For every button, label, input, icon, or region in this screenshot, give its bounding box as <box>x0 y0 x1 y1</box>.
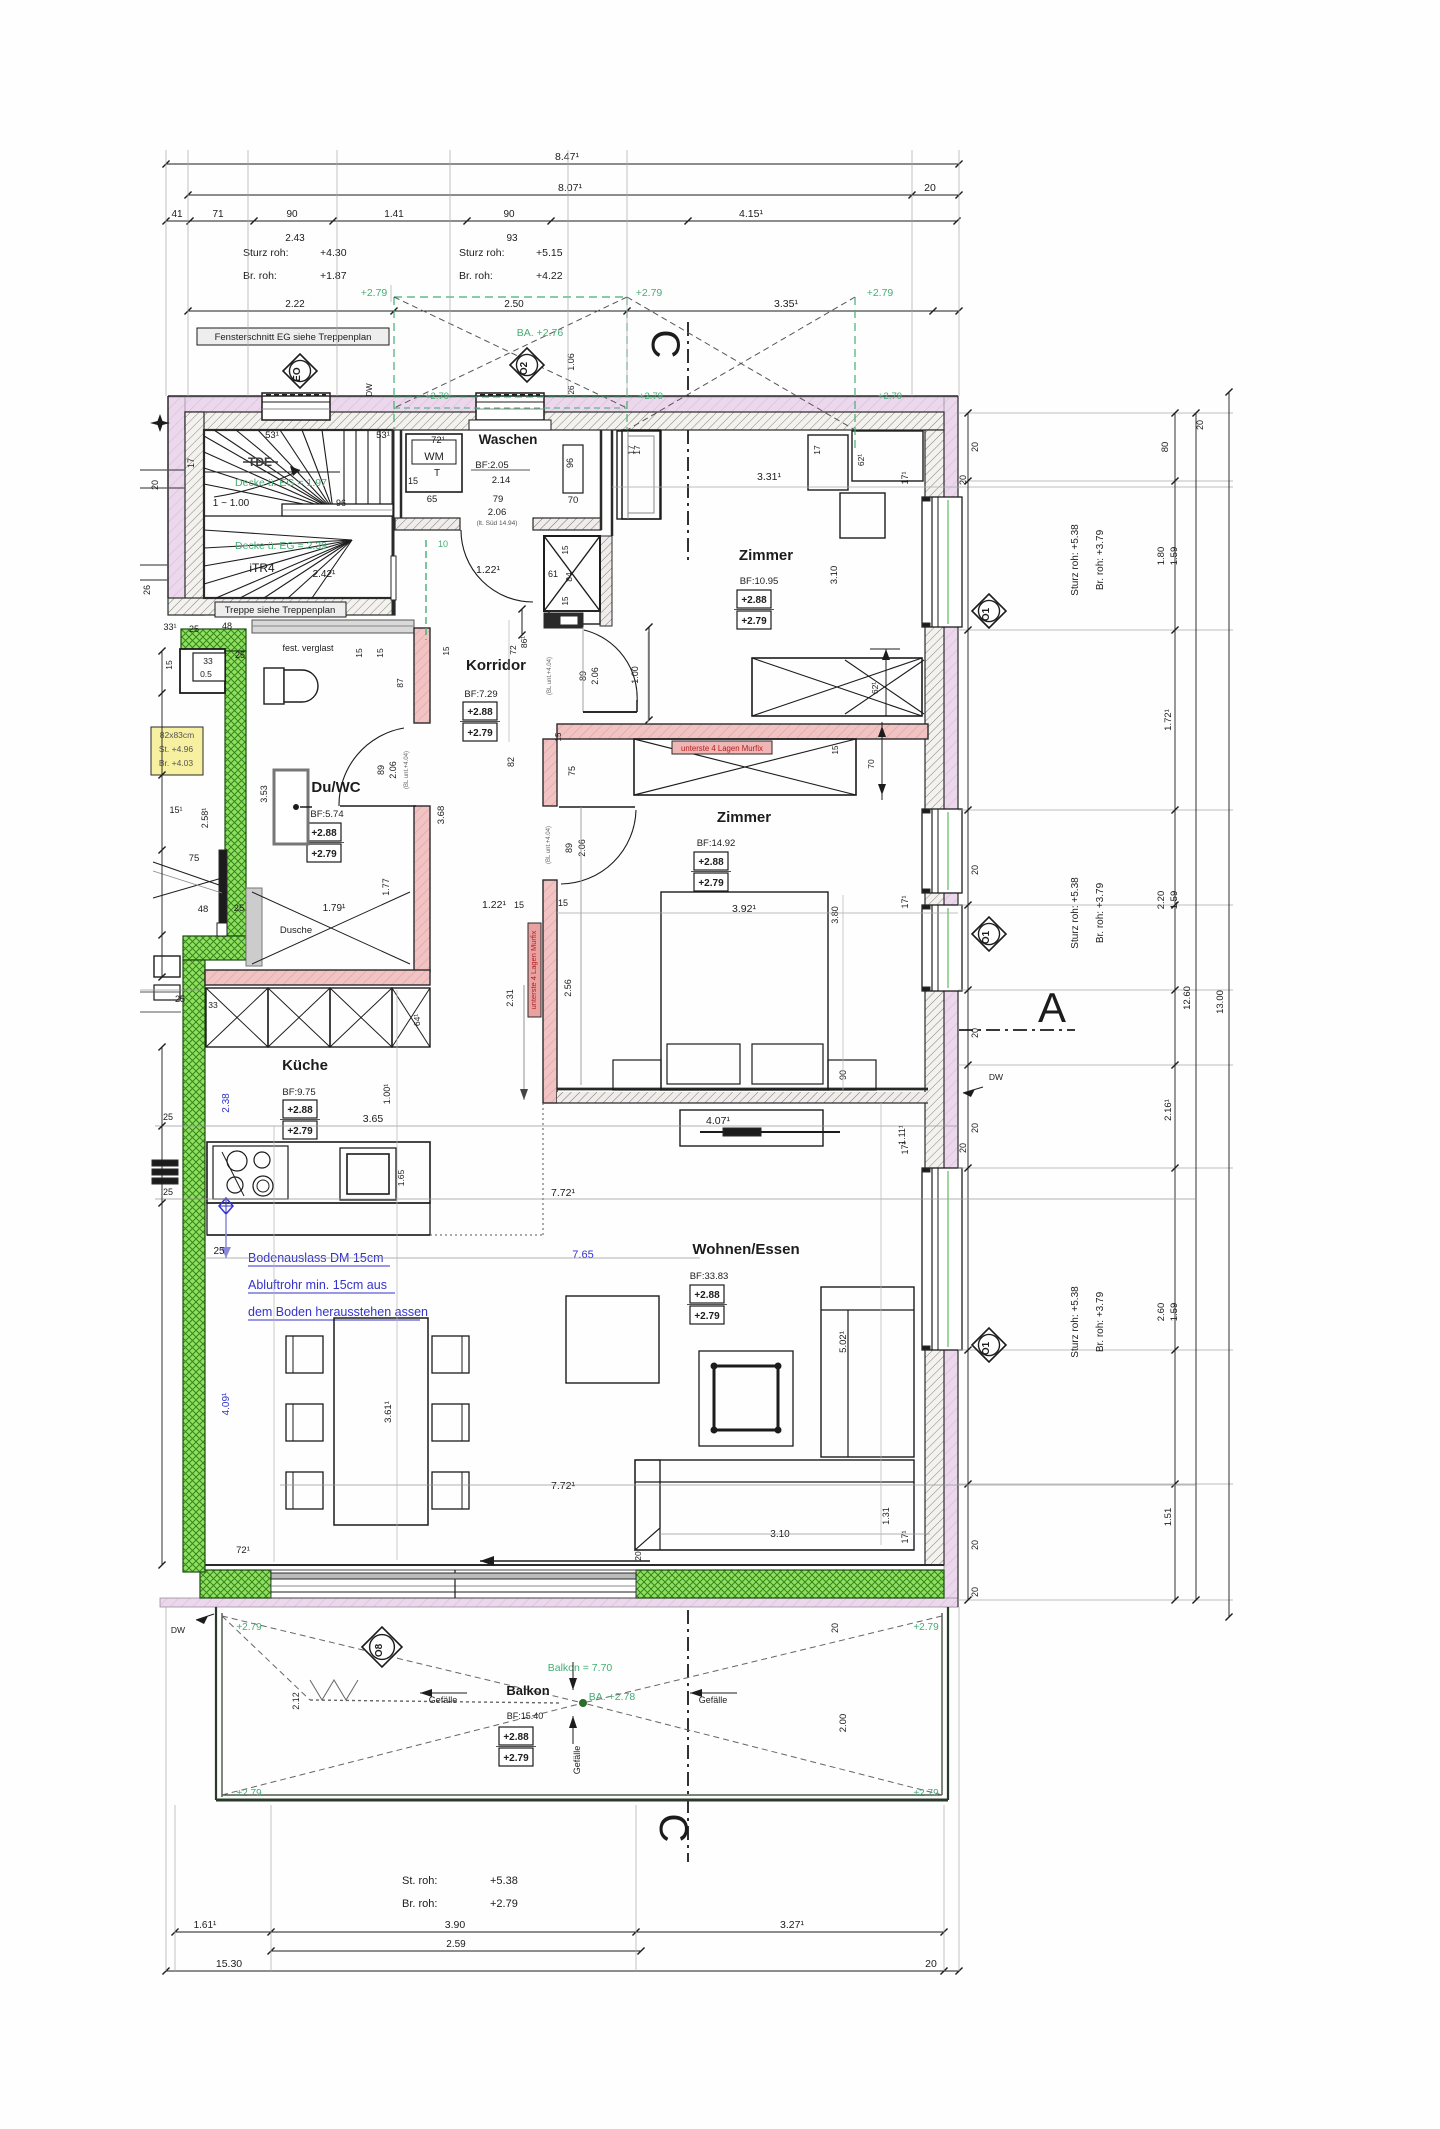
svg-text:T: T <box>434 468 440 479</box>
svg-text:93: 93 <box>506 233 518 244</box>
stair walk line <box>214 470 300 497</box>
svg-text:+2.79: +2.79 <box>361 287 388 299</box>
green dashed construction X <box>394 296 627 298</box>
svg-text:2.50: 2.50 <box>504 299 524 310</box>
waschen room labels <box>406 434 462 492</box>
svg-text:Zimmer: Zimmer <box>739 547 793 564</box>
svg-text:87: 87 <box>395 678 405 688</box>
right wall window 1 <box>922 497 962 627</box>
svg-text:15.30: 15.30 <box>216 1958 242 1970</box>
svg-text:BF:2.05: BF:2.05 <box>475 460 508 471</box>
svg-text:72¹: 72¹ <box>236 1545 250 1556</box>
red vertical note on P4 <box>528 923 541 1017</box>
svg-text:C: C <box>651 1814 695 1843</box>
svg-text:20: 20 <box>925 1958 937 1970</box>
svg-text:Br. roh: +3.79: Br. roh: +3.79 <box>1095 1291 1106 1352</box>
svg-text:+2.88: +2.88 <box>467 707 493 718</box>
kitchen upper cabinets crossed <box>206 988 268 1047</box>
svg-text:Balkon: Balkon <box>506 1683 549 1698</box>
svg-text:0.5: 0.5 <box>200 669 212 679</box>
pink wall P6 horizontal below Du/WC <box>205 970 430 985</box>
svg-text:+2.79: +2.79 <box>913 1622 939 1633</box>
svg-text:BF:14.92: BF:14.92 <box>697 838 736 849</box>
svg-text:3.68: 3.68 <box>436 806 447 825</box>
sideboard zimmer2 south <box>680 1110 823 1146</box>
entrance arrow <box>480 1560 650 1562</box>
svg-text:90: 90 <box>503 209 515 220</box>
svg-text:St. +4.96: St. +4.96 <box>159 744 194 754</box>
svg-text:7.72¹: 7.72¹ <box>551 1480 575 1492</box>
svg-text:A: A <box>1038 984 1066 1031</box>
svg-text:Br. roh: +3.79: Br. roh: +3.79 <box>1095 529 1106 590</box>
stair mid landing line <box>204 471 340 473</box>
svg-text:Sturz roh: +5.38: Sturz roh: +5.38 <box>1070 877 1081 949</box>
svg-text:70: 70 <box>866 759 876 769</box>
svg-text:71: 71 <box>212 209 224 220</box>
svg-text:(BL unt.+4.04): (BL unt.+4.04) <box>547 657 553 695</box>
svg-text:20: 20 <box>1195 420 1205 430</box>
svg-text:+5.38: +5.38 <box>490 1875 518 1887</box>
svg-text:17: 17 <box>812 445 822 455</box>
left niche box <box>180 649 225 693</box>
svg-text:3.65: 3.65 <box>363 1113 384 1125</box>
svg-text:Sturz roh: +5.38: Sturz roh: +5.38 <box>1070 1286 1081 1358</box>
svg-text:2.31: 2.31 <box>505 989 515 1007</box>
svg-text:+2.79: +2.79 <box>639 391 663 402</box>
pink wall P4 korridor right lower <box>543 1095 557 1103</box>
svg-text:17¹: 17¹ <box>900 1530 910 1543</box>
svg-text:80: 80 <box>1160 442 1171 453</box>
right dim chain near wall <box>967 413 969 1600</box>
svg-text:EO: EO <box>292 367 303 382</box>
svg-text:13.00: 13.00 <box>1215 990 1226 1014</box>
svg-text:15: 15 <box>514 900 524 910</box>
outer wall: bottom lavender strip <box>160 1598 958 1607</box>
svg-text:2.43: 2.43 <box>285 233 305 244</box>
exterior ramp X <box>153 862 222 886</box>
shower <box>246 888 262 966</box>
svg-text:15: 15 <box>375 648 385 658</box>
dim 62.5 zimmer1 <box>885 649 887 716</box>
svg-text:+2.88: +2.88 <box>741 595 767 606</box>
svg-text:(BL unt.+4.04): (BL unt.+4.04) <box>404 751 410 789</box>
svg-text:2.14: 2.14 <box>492 475 511 486</box>
svg-text:St. roh:: St. roh: <box>402 1875 437 1887</box>
svg-text:15: 15 <box>354 648 364 658</box>
stair block bottom wall hatched <box>168 598 395 615</box>
svg-text:O2: O2 <box>519 361 530 375</box>
du/wc door <box>340 805 416 807</box>
zimmer2 wardrobe crossed below wall <box>634 739 856 795</box>
svg-text:96: 96 <box>336 498 346 508</box>
dim 1.00 zimmer1 door <box>648 627 650 720</box>
right dim 12.60 <box>1195 413 1197 1600</box>
svg-text:2.38: 2.38 <box>221 1093 232 1113</box>
left green band jog <box>183 936 246 960</box>
svg-text:+5.15: +5.15 <box>536 247 563 259</box>
nightstand right <box>828 1060 876 1090</box>
svg-text:15: 15 <box>408 476 418 486</box>
svg-text:8.47¹: 8.47¹ <box>555 151 579 163</box>
svg-text:3.80: 3.80 <box>830 906 840 924</box>
svg-text:+2.79: +2.79 <box>490 1898 518 1910</box>
svg-text:Abluftrohr min. 15cm aus: Abluftrohr min. 15cm aus <box>248 1278 387 1292</box>
svg-text:1.11¹: 1.11¹ <box>897 1125 907 1145</box>
svg-text:1.31: 1.31 <box>881 1507 891 1525</box>
svg-text:+2.88: +2.88 <box>503 1732 529 1743</box>
svg-text:dem Boden herausstehen assen: dem Boden herausstehen assen <box>248 1305 428 1319</box>
svg-text:1.00¹: 1.00¹ <box>382 1084 392 1105</box>
hob <box>213 1146 288 1199</box>
shaft walls hatched <box>600 536 612 626</box>
svg-text:+2.79: +2.79 <box>467 728 493 739</box>
svg-text:Treppe siehe Treppenplan: Treppe siehe Treppenplan <box>225 605 336 616</box>
svg-text:20: 20 <box>970 1123 980 1133</box>
svg-text:1.22¹: 1.22¹ <box>482 899 506 911</box>
svg-text:Dusche: Dusche <box>280 925 312 936</box>
right dim 13.00 <box>1228 392 1230 1617</box>
EO diamond <box>283 354 317 388</box>
top dim line 1 (8.47) <box>166 163 959 165</box>
bottom wall: dark line <box>200 1564 944 1566</box>
svg-text:3.53: 3.53 <box>259 785 269 803</box>
zimmer1 wardrobe crossed <box>752 658 922 716</box>
dining table <box>334 1318 428 1525</box>
svg-text:2.12: 2.12 <box>291 1692 301 1710</box>
svg-text:O8: O8 <box>374 1643 385 1657</box>
sink <box>340 1148 396 1200</box>
wall stub below shaft <box>544 613 583 628</box>
top wall window 1 <box>262 393 330 420</box>
svg-text:Sturz roh:: Sturz roh: <box>459 247 505 259</box>
svg-text:Decke ü. EG = 1.97: Decke ü. EG = 1.97 <box>235 477 327 489</box>
waschen bottom wall hatched left part <box>395 518 460 530</box>
pink wall P1 Du/WC right upper <box>414 628 430 723</box>
zimmer2 door <box>559 806 635 808</box>
svg-text:15: 15 <box>164 660 174 670</box>
svg-text:90: 90 <box>286 209 298 220</box>
island counter lower <box>207 1203 430 1235</box>
svg-text:+2.79: +2.79 <box>913 1788 939 1799</box>
washbasin <box>274 770 308 844</box>
svg-text:2.22: 2.22 <box>285 299 305 310</box>
balcony outline <box>215 1607 217 1800</box>
svg-text:75: 75 <box>189 853 200 864</box>
right wall window 4 <box>922 1168 962 1350</box>
stair treads upper straight <box>343 430 345 506</box>
svg-text:20: 20 <box>633 1551 643 1561</box>
svg-text:unterste 4 Lagen Murfix: unterste 4 Lagen Murfix <box>681 744 763 753</box>
svg-text:(lt. Süd 14.94): (lt. Süd 14.94) <box>477 520 518 527</box>
dotted guide island <box>430 1234 543 1236</box>
vertical guides top <box>165 150 167 396</box>
svg-text:62¹: 62¹ <box>870 682 880 694</box>
top dim line 3 <box>166 220 957 222</box>
svg-text:BF:15.40: BF:15.40 <box>507 1711 544 1721</box>
svg-text:25: 25 <box>163 1187 173 1197</box>
door rect right of waschen <box>622 430 660 519</box>
svg-text:+2.79: +2.79 <box>503 1753 529 1764</box>
svg-text:2.58¹: 2.58¹ <box>200 808 210 829</box>
svg-text:25: 25 <box>234 903 245 914</box>
zimmer1 cupboard top right <box>808 435 848 490</box>
svg-text:Waschen: Waschen <box>479 432 538 447</box>
svg-text:20: 20 <box>958 475 968 485</box>
svg-text:15: 15 <box>442 646 451 655</box>
svg-text:BF:7.29: BF:7.29 <box>464 689 497 700</box>
svg-text:unterste 4 Lagen Murfix: unterste 4 Lagen Murfix <box>529 930 538 1009</box>
stair room walls <box>204 430 393 598</box>
svg-text:Balkon = 7.70: Balkon = 7.70 <box>548 1662 613 1674</box>
svg-text:33: 33 <box>208 1000 218 1010</box>
svg-text:25: 25 <box>189 624 199 634</box>
waschen left wall <box>400 430 403 518</box>
svg-text:82: 82 <box>506 757 516 767</box>
O8 diamond <box>362 1627 402 1667</box>
svg-text:BA. +2.78: BA. +2.78 <box>589 1691 636 1703</box>
svg-text:+2.79: +2.79 <box>311 849 337 860</box>
svg-text:3.90: 3.90 <box>445 1919 466 1931</box>
svg-text:+2.88: +2.88 <box>694 1290 720 1301</box>
svg-text:62¹: 62¹ <box>856 454 866 466</box>
yellow note <box>151 727 203 775</box>
right dim chain windows <box>1174 413 1176 1600</box>
zimmer2 bed <box>661 892 828 1090</box>
svg-text:12.60: 12.60 <box>1182 986 1193 1010</box>
svg-text:3.10: 3.10 <box>829 566 840 585</box>
svg-text:20: 20 <box>924 182 936 194</box>
svg-text:48: 48 <box>222 621 232 631</box>
svg-text:Gefälle: Gefälle <box>429 1695 458 1705</box>
outer wall top: hatched masonry <box>185 412 944 430</box>
zimmer1 door <box>582 627 584 712</box>
svg-text:+2.79: +2.79 <box>636 287 663 299</box>
svg-text:4.09¹: 4.09¹ <box>221 1392 232 1415</box>
svg-text:1 ~ 1.00: 1 ~ 1.00 <box>213 498 250 509</box>
stair wall door gap to korridor <box>391 556 396 600</box>
svg-text:(BL unt.+4.04): (BL unt.+4.04) <box>546 826 552 864</box>
left dim chain lower <box>161 1047 163 1565</box>
svg-text:65: 65 <box>427 494 438 505</box>
kitchen counter <box>207 1142 430 1203</box>
wall right of waschen / zimmer1 left <box>611 430 614 536</box>
svg-text:Küche: Küche <box>282 1057 328 1074</box>
right wall window 3 <box>922 905 962 991</box>
svg-text:Decke ü. EG = 2.39: Decke ü. EG = 2.39 <box>235 540 327 552</box>
svg-text:1.77: 1.77 <box>381 878 391 896</box>
svg-text:1.72¹: 1.72¹ <box>1163 709 1174 731</box>
pink wall P3 korridor right upper <box>543 739 557 806</box>
svg-text:5.02¹: 5.02¹ <box>838 1331 849 1353</box>
shaft crossed box <box>544 536 600 611</box>
pink wall P2 Du/WC right lower <box>414 806 430 972</box>
zimmer2 bottom wall <box>557 1088 928 1091</box>
svg-text:2.60: 2.60 <box>1156 1303 1167 1322</box>
svg-text:20: 20 <box>970 1028 980 1038</box>
svg-text:BA. +2.76: BA. +2.76 <box>517 327 564 339</box>
svg-text:2.42¹: 2.42¹ <box>313 569 336 580</box>
outer wall: top lavender insulation band <box>168 397 958 412</box>
section line C vertical <box>687 322 689 560</box>
svg-text:17¹: 17¹ <box>900 895 910 908</box>
outer wall: left lavender band (stair block) <box>168 397 185 598</box>
svg-text:+2.79: +2.79 <box>236 1788 262 1799</box>
svg-text:1.00: 1.00 <box>630 666 640 684</box>
svg-text:+4.22: +4.22 <box>536 270 563 282</box>
svg-text:79: 79 <box>493 494 504 505</box>
pink wall P5 between zimmer <box>557 724 928 739</box>
svg-text:2.56: 2.56 <box>563 979 573 997</box>
svg-text:33¹: 33¹ <box>163 622 176 632</box>
svg-text:Gefälle: Gefälle <box>699 1695 728 1705</box>
svg-text:15: 15 <box>561 545 570 554</box>
svg-text:O1: O1 <box>981 930 992 944</box>
svg-text:DW: DW <box>365 383 374 397</box>
section line A horizontal <box>932 1029 1075 1031</box>
svg-text:O1: O1 <box>981 607 992 621</box>
svg-text:3.35¹: 3.35¹ <box>774 298 798 310</box>
svg-text:+2.88: +2.88 <box>287 1105 313 1116</box>
red note on wardrobe <box>672 741 772 754</box>
long interior guide verticals <box>273 1126 275 1562</box>
outer wall right: hatched masonry <box>925 430 944 1565</box>
svg-text:+2.79: +2.79 <box>741 616 767 627</box>
svg-text:1.22¹: 1.22¹ <box>476 564 500 576</box>
svg-text:+2.79: +2.79 <box>698 878 724 889</box>
svg-text:+1.87: +1.87 <box>320 270 347 282</box>
svg-text:+2.88: +2.88 <box>311 828 337 839</box>
svg-text:1.59: 1.59 <box>1169 547 1180 566</box>
svg-text:53¹: 53¹ <box>376 430 390 441</box>
svg-text:Sturz roh: +5.38: Sturz roh: +5.38 <box>1070 524 1081 596</box>
svg-text:Br. roh: +3.79: Br. roh: +3.79 <box>1095 882 1106 943</box>
svg-text:2.06: 2.06 <box>388 761 398 779</box>
svg-text:1.80: 1.80 <box>1156 547 1167 566</box>
svg-text:96: 96 <box>565 458 575 468</box>
svg-text:20: 20 <box>970 442 980 452</box>
svg-text:4.15¹: 4.15¹ <box>739 208 763 220</box>
svg-text:20: 20 <box>830 1623 840 1633</box>
stair upper winder fan <box>204 436 333 510</box>
top dim line 2 (8.07 / 20) <box>188 194 959 196</box>
svg-text:15: 15 <box>831 745 840 754</box>
svg-text:75: 75 <box>567 766 577 776</box>
coffee table <box>699 1351 793 1446</box>
svg-text:2.16¹: 2.16¹ <box>1163 1099 1174 1121</box>
waschen bottom wall hatched right part <box>533 518 601 530</box>
svg-text:64¹: 64¹ <box>412 1014 422 1026</box>
svg-text:+2.79: +2.79 <box>694 1311 720 1322</box>
balcony dashed diagonals <box>222 1616 583 1703</box>
bottom dim line 1 <box>175 1931 944 1933</box>
svg-text:2.20: 2.20 <box>1156 891 1167 910</box>
svg-text:86¹: 86¹ <box>519 636 529 648</box>
svg-text:1.59: 1.59 <box>1169 891 1180 910</box>
svg-text:15: 15 <box>561 596 570 605</box>
svg-text:iTR4: iTR4 <box>249 561 275 575</box>
svg-text:DW: DW <box>171 1625 185 1635</box>
balcony slope zigzag <box>310 1700 560 1703</box>
svg-text:+2.79: +2.79 <box>867 287 894 299</box>
svg-text:2.00: 2.00 <box>838 1714 849 1733</box>
svg-text:17¹: 17¹ <box>900 471 910 484</box>
svg-text:Fensterschnitt EG siehe Treppe: Fensterschnitt EG siehe Treppenplan <box>215 332 372 343</box>
svg-text:25: 25 <box>163 1112 173 1122</box>
bottom dim line 3 <box>166 1970 959 1972</box>
waschen door arc <box>461 530 533 602</box>
right wall window 2 <box>922 809 962 893</box>
glass partition fest. verglast <box>252 620 414 633</box>
top wall window 2 (Waschen) <box>476 393 544 420</box>
sofa L-shape <box>821 1287 914 1457</box>
svg-text:7.65: 7.65 <box>572 1249 593 1261</box>
svg-text:1.79¹: 1.79¹ <box>323 903 346 914</box>
svg-text:25: 25 <box>235 650 245 660</box>
svg-text:DW: DW <box>989 1072 1003 1082</box>
svg-text:Zimmer: Zimmer <box>717 809 771 826</box>
svg-text:1.59: 1.59 <box>1169 1303 1180 1322</box>
left green band lower vertical <box>183 960 205 1572</box>
left dim chain upper <box>161 651 163 977</box>
svg-text:+2.79: +2.79 <box>878 391 902 402</box>
svg-text:Wohnen/Essen: Wohnen/Essen <box>692 1241 799 1258</box>
top dim line 4 <box>188 310 959 312</box>
svg-text:2.06: 2.06 <box>577 839 587 857</box>
toilet <box>264 668 284 704</box>
right horizontal connectors <box>958 412 1233 414</box>
svg-text:20: 20 <box>970 1587 980 1597</box>
svg-text:BF:10.95: BF:10.95 <box>740 576 779 587</box>
svg-text:10: 10 <box>438 539 448 549</box>
svg-text:25: 25 <box>213 1246 225 1257</box>
svg-text:Br. roh:: Br. roh: <box>402 1898 437 1910</box>
svg-text:15: 15 <box>554 732 563 741</box>
bottom dim line 2 <box>271 1950 641 1952</box>
svg-text:BF:9.75: BF:9.75 <box>282 1087 315 1098</box>
svg-text:7.72¹: 7.72¹ <box>551 1187 575 1199</box>
boxed note: Treppe siehe Treppenplan <box>215 602 346 617</box>
boxed note: Fensterschnitt <box>197 328 389 345</box>
svg-text:15: 15 <box>558 898 568 908</box>
svg-text:4.07¹: 4.07¹ <box>706 1115 730 1127</box>
green dashed door line korridor <box>425 540 427 640</box>
top outer boundary line <box>168 395 958 397</box>
armchair <box>566 1296 659 1383</box>
horizontal guides interior <box>155 1125 958 1127</box>
svg-text:33: 33 <box>203 656 213 666</box>
svg-text:fest. verglast: fest. verglast <box>282 643 334 653</box>
left green band upper vertical <box>225 651 246 936</box>
svg-text:2.06: 2.06 <box>590 667 600 685</box>
svg-text:1.65: 1.65 <box>396 1169 406 1186</box>
svg-text:82x83cm: 82x83cm <box>160 730 195 740</box>
O2 diamond <box>510 348 544 382</box>
bottom wall green segment right <box>636 1570 944 1598</box>
datum star <box>150 414 170 432</box>
svg-text:Sturz roh:: Sturz roh: <box>243 247 289 259</box>
svg-text:20: 20 <box>970 865 980 875</box>
svg-text:1.41: 1.41 <box>384 209 404 220</box>
svg-text:70: 70 <box>568 495 579 506</box>
bottom wall glass door area <box>271 1570 636 1598</box>
bottom guides vertical <box>174 1805 176 1971</box>
svg-text:1.61¹: 1.61¹ <box>194 1920 217 1931</box>
svg-text:84: 84 <box>564 572 574 582</box>
svg-text:2.06: 2.06 <box>488 507 507 518</box>
zimmer1 wardrobe <box>617 431 661 519</box>
svg-text:1.06: 1.06 <box>566 353 576 371</box>
floor drain symbol <box>219 1198 233 1214</box>
